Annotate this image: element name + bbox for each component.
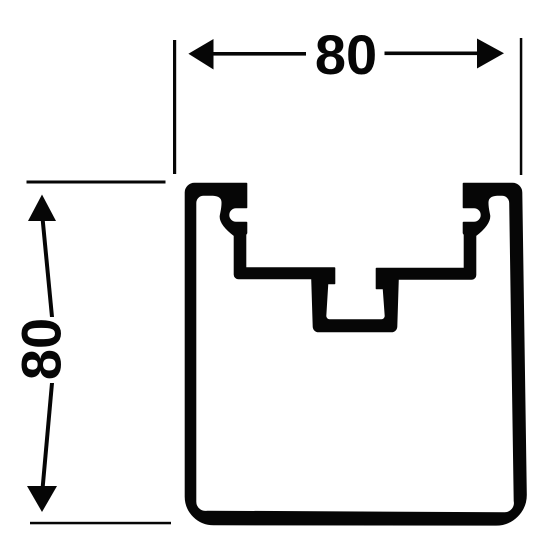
right arrowhead xyxy=(477,39,504,69)
horizontal dimension: right extension line xyxy=(520,38,523,175)
svg-text:80: 80 xyxy=(10,318,73,380)
svg-text:80: 80 xyxy=(315,23,377,86)
vertical dimension: bottom extension line xyxy=(30,522,171,525)
horizontal dimension: left extension line xyxy=(173,40,176,174)
profile body: 80x80 aluminium extrusion cross-section xyxy=(186,184,527,525)
vertical dimension: top extension line xyxy=(27,181,166,184)
horizontal dimension line left segment xyxy=(212,52,306,56)
horizontal dimension line right segment xyxy=(385,52,478,56)
vertical dimension line upper segment xyxy=(41,220,54,317)
vertical dimension line lower segment xyxy=(41,383,54,487)
down arrowhead xyxy=(27,486,57,512)
left arrowhead xyxy=(188,39,213,70)
up arrowhead xyxy=(28,195,56,222)
